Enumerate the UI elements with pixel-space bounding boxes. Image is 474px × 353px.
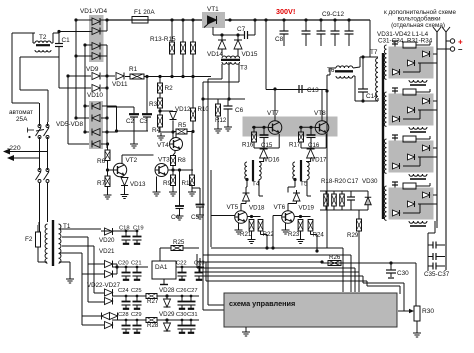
svg-text:C30: C30 <box>397 270 409 277</box>
svg-text:автомат: автомат <box>9 109 33 116</box>
svg-text:VT4: VT4 <box>157 142 169 149</box>
svg-text:VD13: VD13 <box>130 181 146 188</box>
svg-text:C5: C5 <box>191 214 200 221</box>
svg-text:T2: T2 <box>39 34 47 41</box>
svg-text:R23: R23 <box>288 231 300 238</box>
svg-text:C14: C14 <box>366 93 378 100</box>
svg-text:C28: C28 <box>118 312 129 318</box>
svg-text:R1: R1 <box>129 66 138 73</box>
svg-text:C29: C29 <box>131 312 142 318</box>
svg-text:C31-C34: C31-C34 <box>378 38 404 45</box>
svg-text:R7: R7 <box>97 180 106 187</box>
svg-text:C26: C26 <box>176 288 187 294</box>
svg-text:R29: R29 <box>347 232 359 239</box>
svg-text:VT3: VT3 <box>158 157 170 164</box>
svg-text:VD22-VD27: VD22-VD27 <box>87 282 121 289</box>
svg-text:VD29: VD29 <box>159 311 175 318</box>
svg-text:C25: C25 <box>131 288 142 294</box>
svg-text:C2: C2 <box>126 118 134 125</box>
svg-text:VD17: VD17 <box>311 157 327 164</box>
svg-text:R30: R30 <box>422 308 434 315</box>
svg-text:C1: C1 <box>62 37 71 44</box>
svg-text:C20: C20 <box>118 261 129 267</box>
svg-text:R3: R3 <box>149 101 158 108</box>
svg-text:R27: R27 <box>147 298 159 305</box>
svg-text:R17: R17 <box>289 142 301 149</box>
svg-text:C31: C31 <box>187 312 198 318</box>
svg-text:C22: C22 <box>176 261 187 267</box>
svg-text:VD28: VD28 <box>159 287 175 294</box>
svg-text:25А: 25А <box>16 116 28 123</box>
svg-text:VD5-VD8: VD5-VD8 <box>56 121 83 128</box>
svg-text:C15: C15 <box>261 142 273 149</box>
svg-text:R6: R6 <box>97 158 106 165</box>
svg-text:R2: R2 <box>165 85 174 92</box>
svg-text:C17: C17 <box>347 178 359 185</box>
svg-text:C9-C12: C9-C12 <box>322 11 344 18</box>
svg-text:R28: R28 <box>147 322 159 329</box>
svg-text:VT7: VT7 <box>267 110 279 117</box>
svg-text:R18-R20: R18-R20 <box>321 178 346 185</box>
svg-text:(отдельная схема): (отдельная схема) <box>391 22 445 29</box>
svg-text:R5: R5 <box>178 122 187 129</box>
svg-text:VD12: VD12 <box>175 106 191 113</box>
svg-text:DA1: DA1 <box>155 264 168 271</box>
svg-text:C21: C21 <box>131 261 142 267</box>
svg-text:VD18: VD18 <box>249 205 265 212</box>
svg-text:VD20: VD20 <box>99 237 115 244</box>
svg-text:C6: C6 <box>235 107 244 114</box>
svg-text:C3: C3 <box>140 118 148 125</box>
svg-text:VT5: VT5 <box>227 204 239 211</box>
svg-text:C35-C37: C35-C37 <box>424 271 450 278</box>
svg-text:C23: C23 <box>194 261 205 267</box>
svg-text:!: ! <box>293 7 295 16</box>
svg-text:R12: R12 <box>215 117 227 124</box>
svg-text:VD9: VD9 <box>86 66 99 73</box>
svg-text:T7: T7 <box>370 49 378 56</box>
svg-text:C7: C7 <box>237 26 246 33</box>
svg-text:VT1: VT1 <box>207 6 219 13</box>
svg-text:R31-R34: R31-R34 <box>407 38 433 45</box>
svg-text:R21: R21 <box>240 231 252 238</box>
svg-text:R4: R4 <box>152 127 161 134</box>
svg-text:C4: C4 <box>171 214 180 221</box>
svg-text:VD19: VD19 <box>299 205 315 212</box>
svg-text:VD10: VD10 <box>87 92 103 99</box>
svg-text:VD1-VD4: VD1-VD4 <box>80 8 107 15</box>
svg-text:VD16: VD16 <box>264 157 280 164</box>
svg-text:300V: 300V <box>276 7 293 16</box>
svg-text:F2: F2 <box>25 236 33 243</box>
svg-text:C27: C27 <box>187 288 198 294</box>
svg-text:T3: T3 <box>240 65 248 72</box>
svg-text:F1 20A: F1 20A <box>134 9 155 16</box>
svg-text:R25: R25 <box>173 239 185 246</box>
svg-text:VD30: VD30 <box>362 178 378 185</box>
svg-text:VT6: VT6 <box>274 204 286 211</box>
svg-text:C24: C24 <box>118 288 129 294</box>
svg-text:VD15: VD15 <box>242 51 258 58</box>
svg-text:–: – <box>458 45 463 54</box>
svg-text:R26: R26 <box>329 254 341 261</box>
svg-text:R9: R9 <box>163 180 172 187</box>
svg-text:VT8: VT8 <box>314 110 326 117</box>
svg-text:R8: R8 <box>178 157 187 164</box>
svg-text:схема управления: схема управления <box>229 299 295 308</box>
svg-text:R11: R11 <box>182 180 193 187</box>
svg-text:R16: R16 <box>242 142 254 149</box>
svg-text:VD14: VD14 <box>207 51 223 58</box>
svg-text:VD11: VD11 <box>112 81 128 88</box>
svg-text:C30: C30 <box>176 312 187 318</box>
svg-text:VD21: VD21 <box>99 248 115 255</box>
svg-text:C16: C16 <box>308 142 320 149</box>
svg-text:C8: C8 <box>275 36 284 43</box>
svg-text:VT2: VT2 <box>126 157 138 164</box>
svg-text:C13: C13 <box>307 87 319 94</box>
